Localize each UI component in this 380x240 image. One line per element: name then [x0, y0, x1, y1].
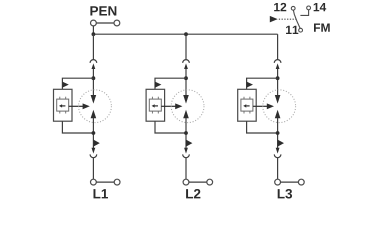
gas discharge tube element branch 1	[57, 99, 69, 111]
pin tick top-right branch 3	[249, 97, 251, 99]
wire branch 2 upper stem	[185, 69, 187, 96]
wire branch 1 terminal drop	[92, 158, 94, 180]
wire branch 3 lower stem	[277, 118, 279, 148]
pin tick bottom-right branch 3	[249, 111, 251, 113]
pin tick top-left branch 3	[243, 97, 245, 99]
contact FM changeover arm	[293, 10, 300, 28]
terminal PEN left circle	[91, 20, 97, 26]
pin tick top-left branch 2	[151, 97, 153, 99]
disconnector flag upper branch 1	[62, 82, 68, 88]
terminal L1 right circle	[114, 179, 120, 185]
node L1 label	[94, 189, 108, 198]
wire branch 1 top feed	[92, 34, 94, 60]
wire L1 terminal link	[96, 181, 114, 183]
terminal 14 circle	[307, 6, 311, 10]
plug-in disconnect socket top branch 2	[183, 60, 190, 63]
mechanical link arrow to FM contact	[270, 16, 278, 23]
pin tick top-right branch 2	[157, 97, 159, 99]
disconnector flag upper branch 2	[155, 82, 161, 88]
pin tick bottom-left branch 3	[243, 111, 245, 113]
spark gap lower electrode branch 3	[275, 110, 281, 119]
spark gap upper electrode branch 1	[91, 95, 97, 104]
plug-in disconnect pin bottom branch 2	[184, 148, 188, 154]
plug-in disconnect pin bottom branch 1	[92, 148, 96, 154]
trigger arrow into spark gap branch 1	[69, 103, 90, 109]
wire PEN drop	[92, 26, 94, 34]
node L2 label	[186, 189, 200, 198]
wire dotted mechanical link	[279, 18, 297, 20]
spark gap enclosure dashed circle branch 3	[263, 90, 296, 123]
pin tick top-left branch 1	[59, 97, 61, 99]
disconnector flag lower branch 1	[93, 140, 99, 147]
trigger circuit box branch 1	[54, 89, 73, 121]
wire branch 3 terminal drop	[277, 158, 279, 180]
trigger circuit box branch 3	[238, 89, 257, 121]
wire branch 2 lower stem	[185, 118, 187, 148]
wire PEN bus horizontal	[93, 33, 277, 35]
wire branch 3 top feed	[277, 34, 279, 60]
disconnector flag lower branch 3	[278, 140, 284, 147]
node 11 label	[286, 26, 298, 34]
terminal L2 left circle	[183, 179, 189, 185]
pin tick bottom-left branch 1	[59, 111, 61, 113]
junction bus branch 1	[92, 32, 96, 36]
contact 14 fixed seat	[300, 10, 308, 16]
plug-in disconnect pin top branch 3	[276, 63, 280, 69]
spark gap upper electrode branch 2	[183, 95, 189, 104]
terminal 12 circle	[291, 6, 295, 10]
inner element arrow branch 1	[59, 104, 65, 107]
plug-in disconnect pin bottom branch 3	[276, 148, 280, 154]
pin tick bottom-right branch 2	[157, 111, 159, 113]
terminal L1 left circle	[91, 179, 97, 185]
wire branch 3 trigger tap	[247, 78, 278, 89]
trigger circuit box branch 2	[146, 89, 165, 121]
gas discharge tube element branch 3	[241, 99, 253, 111]
inner element arrow branch 2	[152, 104, 158, 107]
wire branch 2 trigger tap	[155, 78, 186, 89]
wire branch 3 upper stem	[277, 69, 279, 96]
trigger arrow into spark gap branch 3	[253, 103, 274, 109]
node 12 label	[274, 3, 286, 11]
plug-in disconnect socket bottom branch 3	[274, 154, 281, 157]
terminal L2 right circle	[207, 179, 213, 185]
spark gap enclosure dashed circle branch 1	[79, 90, 112, 123]
wire branch 1 lower stem	[92, 118, 94, 148]
pin tick bottom-right branch 1	[65, 111, 67, 113]
spark gap enclosure dashed circle branch 2	[171, 90, 204, 123]
plug-in disconnect socket bottom branch 2	[183, 154, 190, 157]
node 14 label	[314, 3, 327, 11]
wire branch 1 upper stem	[92, 69, 94, 96]
wire branch 2 top feed	[185, 34, 187, 60]
pin tick bottom-left branch 2	[151, 111, 153, 113]
disconnector flag upper branch 3	[247, 82, 253, 88]
junction branch 3 lower node	[276, 131, 280, 135]
terminal PEN right circle	[114, 20, 120, 26]
wire branch 1 trigger tap	[62, 78, 93, 89]
spark gap lower electrode branch 2	[183, 110, 189, 119]
wire branch 2 terminal drop	[185, 158, 187, 180]
junction branch 1 upper node	[92, 76, 96, 80]
wire L3 terminal link	[281, 181, 299, 183]
terminal 11 circle	[299, 28, 303, 32]
plug-in disconnect pin top branch 2	[184, 63, 188, 69]
wire branch 3 trigger return	[247, 121, 278, 133]
spark gap lower electrode branch 1	[91, 110, 97, 119]
junction branch 3 upper node	[276, 76, 280, 80]
terminal L3 right circle	[298, 179, 304, 185]
disconnector flag lower branch 2	[186, 140, 192, 147]
junction branch 2 upper node	[184, 76, 188, 80]
node L3 label	[278, 189, 292, 199]
wire branch 2 trigger return	[155, 121, 186, 133]
terminal L3 left circle	[275, 179, 281, 185]
node FM label	[314, 24, 330, 32]
junction branch 1 lower node	[92, 131, 96, 135]
plug-in disconnect socket top branch 1	[90, 60, 97, 63]
plug-in disconnect socket top branch 3	[274, 60, 281, 63]
node PEN label	[90, 6, 116, 15]
wire branch 1 trigger return	[62, 121, 93, 133]
inner element arrow branch 3	[243, 104, 249, 107]
trigger arrow into spark gap branch 2	[161, 103, 182, 109]
wire L2 terminal link	[189, 181, 207, 183]
wire PEN terminal link	[96, 22, 114, 24]
junction bus branch 2	[184, 32, 188, 36]
pin tick top-right branch 1	[65, 97, 67, 99]
plug-in disconnect pin top branch 1	[92, 63, 96, 69]
plug-in disconnect socket bottom branch 1	[90, 154, 97, 157]
gas discharge tube element branch 2	[149, 99, 161, 111]
junction branch 2 lower node	[184, 131, 188, 135]
spark gap upper electrode branch 3	[275, 95, 281, 104]
